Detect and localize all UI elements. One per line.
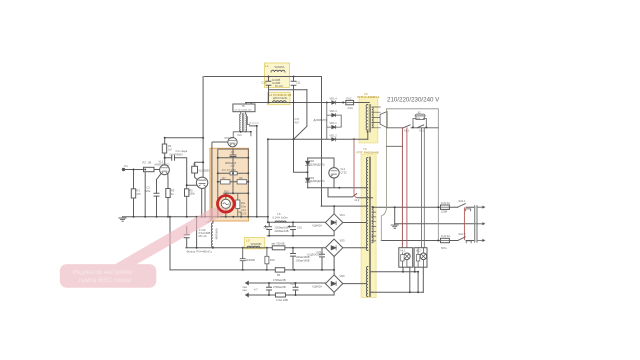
indicator lamp stub [225,193,227,217]
rectifier diode VD1.2 [332,138,336,141]
capacitor C16 [288,226,295,230]
capacitor C20 at rail3 left [240,248,245,270]
svg-text:R2: R2 [143,161,147,165]
wire: T2 primary bottom leg [367,132,369,140]
svg-text:К1.1: К1.1 [404,129,410,133]
wire: top horizontal feed y=76 [205,76,322,78]
svg-text:6800мк-В: 6800мк-В [225,161,237,165]
resistor R7 [230,172,237,175]
transformer T2 core [369,105,370,133]
grid resistor R6 of VL2 [192,166,198,173]
wire: rail3 y=247.3 [186,247,326,249]
contact K2.1 [417,125,424,128]
wire: screen bend from loop to lower bus [294,90,307,140]
wire: zero rail y=269.4 [170,269,334,271]
svg-text:4п= 27.33М: 4п= 27.33М [222,168,236,172]
svg-text:FU4 2А: FU4 2А [441,234,450,238]
svg-text:КЦ402А: КЦ402А [313,284,323,288]
svg-text:+СЦ30Х300В: +СЦ30Х300В [307,252,323,256]
svg-text:HL2: HL2 [416,249,421,253]
svg-text:210/220/230/240 V: 210/220/230/240 V [387,96,440,103]
relay K2 side legs [413,119,426,128]
maroon marked wire to lamp HL1 [401,128,403,253]
wire: VD2/VD3 column x=306.9 [307,158,309,188]
wire: output run after fuse FU3 [449,206,475,208]
contact K1.1 [403,125,410,128]
junction dots right [372,126,439,293]
resistor R3 [166,189,170,198]
red link between output switches [463,208,465,240]
highlight box for filter choke L2 [268,92,291,104]
connector X2 body [475,206,477,242]
svg-text:КЦ402А: КЦ402А [313,223,323,227]
svg-text:0.047/400V: 0.047/400V [170,153,184,157]
wire: vertical x=293 rail B to bus y=138.8 then to VD2 [294,90,308,173]
choke L1 coil [271,70,285,72]
VD chain side links [327,103,341,140]
svg-text:1M: 1M [148,161,152,165]
diode VD2 [306,161,310,165]
wire: C11 vertical leg x=293 [293,77,295,90]
resistor R8 [221,180,231,184]
svg-text:VD4: VD4 [340,213,346,217]
wire: rail1 y=221.8 [268,221,326,223]
junction dots center [196,76,355,297]
svg-text:Д226Б(ИЛ): Д226Б(ИЛ) [314,118,327,122]
wire: caps between rail4 and rail5 [269,283,296,295]
wire: VL1 cathode legs [157,173,169,216]
wire: return leg x=144.7 [144,170,146,217]
resistor R11 hanging [238,193,241,217]
T3 secondary tap stubs [372,207,376,241]
svg-text:X1: X1 [124,164,128,168]
svg-text:К2.1: К2.1 [420,129,426,133]
bridge rectifier VD4 [325,214,342,231]
connector pin arrows [478,207,483,240]
rectifier diode VD1.4 [332,101,336,104]
stabilizer tube VL4 [329,168,339,178]
svg-text:6Н2П(6Н9С): 6Н2П(6Н9С) [155,163,170,167]
svg-text:ДРОССЕЛЬ: ДРОССЕЛЬ [273,96,288,100]
svg-text:В2: В2 [277,273,281,277]
svg-text:R10: R10 [224,190,229,194]
svg-text:VL2 6Е5С: VL2 6Е5С [198,169,210,173]
junction dots left section [133,125,269,218]
resistor on rail5 [276,293,286,297]
capacitor C15 [265,226,272,230]
capacitor C2 [154,193,159,196]
svg-text:3Ом: 3Ом [241,204,246,208]
svg-text:СГ3С: СГ3С [340,170,347,174]
wire: VL4 bottom rail y=187.3 [307,187,367,189]
wire: ground bus y=216.3 [123,216,268,218]
wire: VL3 left grid run [212,142,228,220]
wire: lamp bus y=271.2 [371,271,419,273]
junction dots inside orange box [217,157,250,218]
terminal X1 [122,168,124,170]
wire: bus to zero rail x=169.5 [169,217,171,270]
highlight box for transformer T3 [361,154,376,297]
lamp HL2 [420,253,427,260]
contact row under relay [387,127,439,129]
svg-text:СТ-32 124-В-100: СТ-32 124-В-100 [235,109,253,111]
svg-text:47k: 47k [137,192,142,196]
wire: drop x=417.6 to bottom bus [417,272,419,293]
svg-text:4 Ом 10Вт: 4 Ом 10Вт [276,298,289,302]
svg-text:РПТ-Р4669Н4В: РПТ-Р4669Н4В [357,150,379,154]
resistor R2 [144,167,155,171]
resistor R9 [237,180,247,184]
wire: left input y=169 [124,169,160,171]
wire: VD5 bottom to zero rail to VD6 top [333,257,335,275]
capacitor C19 [184,235,189,238]
mains voltage selector box outline [387,109,439,241]
capacitor C20 [291,254,296,257]
wire: ground stem at x=394.2 [394,207,396,225]
resistor R15 below rail3 [266,248,268,270]
capacitor C3 [230,149,236,158]
wire: lamp HL1 return leg [409,267,411,292]
tube VL3 [228,138,237,147]
wire: vertical x=202.6 from top feed down to VL2 [202,77,204,178]
wire: filter cap legs rail1 [269,222,293,235]
wire: selector arm riser and diagonal to tap 41.2 [328,188,373,198]
svg-text:220н: 220н [145,189,151,193]
svg-text:С25: С25 [291,282,296,286]
center branch wire [232,158,234,194]
svg-text:C11: C11 [296,81,301,85]
ground symbol left bus [119,218,126,221]
svg-text:VD1.4: VD1.4 [330,97,338,101]
svg-text:R9: R9 [239,176,243,180]
svg-text:VD1.2: VD1.2 [330,133,338,137]
fuse FU3 [441,205,450,209]
svg-text:МС-1А: МС-1А [199,234,207,238]
TV windings [242,114,243,132]
svg-text:VL3: VL3 [237,133,242,137]
red marked wire K1.1 to lamp HL1 [406,128,408,253]
lamp HL1 [404,253,411,260]
svg-text:С17: С17 [295,117,300,121]
wire: VL1 anode riser x=164.2 [164,138,166,165]
svg-text:Фильтр ПЧ f=465 кГц: Фильтр ПЧ f=465 кГц [187,249,213,253]
svg-text:SA1.2: SA1.2 [459,232,467,236]
wire: VL2 cathode leg [202,188,205,217]
svg-text:Д226Б(Д226): Д226Б(Д226) [309,162,325,166]
wire: mains rail B y=102 [246,102,370,104]
transformer T2 primary winding [366,105,368,133]
wire: VD4 top vertex to node D [333,206,335,214]
resistor R17 on zero rail [275,268,284,272]
highlight box for transformer T2 [359,97,378,143]
svg-text:VD5: VD5 [340,238,346,242]
wire: bottom output y=240 [381,240,475,242]
svg-text:С15: С15 [264,226,269,230]
svg-text:FU3 2А: FU3 2А [441,201,450,205]
svg-text:R4: R4 [168,144,172,148]
lamp HL1 box [399,248,413,268]
svg-text:FU2: FU2 [347,96,352,100]
wire: lamp legs to bus [403,267,415,272]
svg-text:4н7: 4н7 [295,121,300,125]
svg-text:R15: R15 [270,258,275,262]
wire: rail4 y=282.5 [245,282,325,284]
svg-text:150к: 150к [189,192,195,196]
svg-text:C10: C10 [262,81,267,85]
svg-text:кан: кан [243,289,248,292]
transformer T3 primary bottom winding [366,267,368,297]
svg-text:100мк/160В: 100мк/160В [296,258,310,262]
lamp HL2 box [414,248,427,268]
wire: VL4 pins [333,158,335,188]
svg-text:лампа 6Е5С схема: лампа 6Е5С схема [79,278,132,284]
ground symbol right [391,225,398,228]
svg-text:Индикатор настройки: Индикатор настройки [73,269,133,276]
svg-text:0.14-Н 1кОм: 0.14-Н 1кОм [273,215,288,219]
resistor R1 [131,189,135,198]
lamp row wire [224,192,249,194]
wire: node D horizontal y=205.6 [321,205,368,207]
svg-text:SA1.1: SA1.1 [459,199,467,203]
capacitor C24 [293,287,298,290]
wire: long vertical x=321 from top feed down to node D [321,77,323,207]
wire: plate feed y=137.2 from R4 node to x=202.6 [165,137,203,139]
tap wire to maroon lead [387,145,403,147]
svg-text:0.25: 0.25 [241,211,247,215]
svg-text:1M: 1M [168,148,172,152]
wire: coupling run y=157.2 to VL2 grid [165,158,203,186]
highlight box for coil L3 [244,238,264,249]
wire: L1 capacitor loop bottom y=89.3 [269,89,307,91]
output arrows left channel [245,281,248,297]
svg-text:авт 750-5В: авт 750-5В [272,242,285,246]
relay K2 box [416,116,424,120]
transformer T3 secondary winding [372,207,373,243]
svg-text:R3: R3 [171,189,175,193]
output transformer TV label box [233,104,255,112]
capacitor C10 [266,81,271,85]
red marked wire K2.1 to lamp HL2 [421,128,423,250]
highlight box for filter choke L1 [265,63,290,88]
wire row below C3 [218,157,249,159]
svg-text:Д226Б(Д226): Д226Б(Д226) [309,179,325,183]
resistor on rail3 [272,246,285,250]
resistor R4 [162,144,166,153]
svg-text:н5/250В: н5/250В [245,258,255,262]
transformer T3 core [369,157,370,297]
red highlight circle [218,196,235,213]
svg-text:VD6: VD6 [340,274,346,278]
svg-text:W4903Вт: W4903Вт [215,229,219,241]
fuse FU2 [346,100,354,104]
connector pin hooks [466,209,472,243]
wire: T3 secondary output tap y=206.7 [373,206,441,208]
resistor R5 [186,185,188,217]
svg-text:W4926А: W4926А [275,65,285,69]
capacitor C1 [172,155,175,160]
svg-text:2.0А: 2.0А [348,106,354,110]
subcircuit frame wires in orange box [218,149,249,217]
selector wedge connector [380,112,387,128]
wire: horizontal bus y=138.8 [268,138,368,140]
red marked wire from bus to tap 41.2 [354,139,357,197]
svg-text:6П14П: 6П14П [225,136,233,140]
svg-text:VD1.1: VD1.1 [330,121,338,125]
coil L3 [247,246,260,248]
wire: B+ drop x=267.4 down to rail1 [267,139,269,222]
rectifier diode VD1.3 [327,113,341,116]
dark wire to lamp HL2 [423,128,425,248]
TV winding legs [241,112,250,132]
svg-text:РПТ-Р-4669Н-4: РПТ-Р-4669Н-4 [357,95,379,99]
svg-text:HL1: HL1 [401,249,406,253]
bridge rectifier VD6 [325,275,342,292]
svg-text:R6: R6 [193,163,197,167]
wire: R1 leg x=133 [133,170,135,217]
wire: caps below rail3 [293,248,322,270]
choke L2 coil [272,101,286,103]
wire: lamp HL2 return leg [422,268,424,293]
wire: bridge outputs to transformer [343,223,367,284]
svg-text:L1: L1 [265,64,269,68]
rectifier diode VD1.1 [327,125,341,128]
svg-text:4.7: 4.7 [254,288,258,292]
pink watermark beam pointing to red circle [115,208,234,265]
wire: rail5 y=294.5 [245,292,334,295]
svg-text:220В: 220В [441,210,447,214]
fuse FU4 [441,238,450,242]
svg-text:1k: 1k [171,192,174,196]
red highlight circle (over beam) [218,196,235,213]
svg-text:50Гц: 50Гц [441,246,447,250]
wire: L4 coil legs [212,221,214,248]
wire: C10 vertical leg x=268 [268,77,270,103]
indicator lamp inside red circle [221,199,230,208]
pink watermark callout box [60,264,157,288]
wire: rail2 y=235.2 [267,231,334,236]
tube VL1 [160,165,170,175]
T3 bottom output stub [372,291,373,293]
wire: C19 leg x=186.2 [186,227,188,248]
svg-text:R7: R7 [222,176,226,180]
switch SA1.1 [458,204,466,208]
diode VD3 [306,178,310,182]
filter choke L5 on rail1 [275,221,286,222]
svg-text:4700мк/4В: 4700мк/4В [273,278,286,282]
coil L4 (vertical) [211,223,212,247]
orange selection box around indicator subcircuit [210,148,249,221]
svg-text:C1 слюда: C1 слюда [176,149,188,153]
wire: mid output y=223.3 [395,223,478,225]
svg-text:С16: С16 [297,226,302,230]
svg-text:зв.частота: зв.частота [249,123,260,125]
transformer T2 secondary taps [372,107,373,128]
svg-text:41.2: 41.2 [354,198,360,202]
transformer T3 primary winding upper [366,158,368,251]
svg-text:ТВ: ТВ [242,105,245,108]
wire: bottom bus y=291.8 [371,291,424,293]
svg-text:W4903Вт: W4903Вт [251,242,263,246]
wire: stub from rail B down to TV box [246,103,251,105]
wire: leg x=196.1 bus to rail3 [196,217,198,248]
svg-text:6С-НО: 6С-НО [275,84,283,88]
wire: VL4 top feed y=157.5 [308,157,334,159]
capacitor C11 [291,81,296,85]
lamp HL2 series resistor [417,248,419,268]
switch SA1.2 [458,237,466,241]
svg-text:мк-Н: мк-Н [230,166,235,168]
bridge rectifier VD5 [325,239,342,256]
wire row with resistor R7 [218,172,249,174]
svg-text:2200мк/10В: 2200мк/10В [275,229,289,233]
svg-text:L3: L3 [246,238,250,242]
wire: corner joining rail1 area [250,126,257,217]
svg-text:R1: R1 [137,189,141,193]
wire: screen tap of TV [233,132,251,139]
tube VL2 [196,177,207,188]
capacitor C23 [267,287,272,290]
wire row with R8 and R9 [218,181,249,183]
svg-text:99М: 99М [416,118,420,120]
lamp HL1 series resistor [401,253,403,267]
capacitor C21 [320,254,325,257]
svg-text:VD1.3: VD1.3 [330,109,338,113]
svg-text:4700мк/4В: 4700мк/4В [273,285,286,289]
svg-text:С3: С3 [231,150,235,154]
